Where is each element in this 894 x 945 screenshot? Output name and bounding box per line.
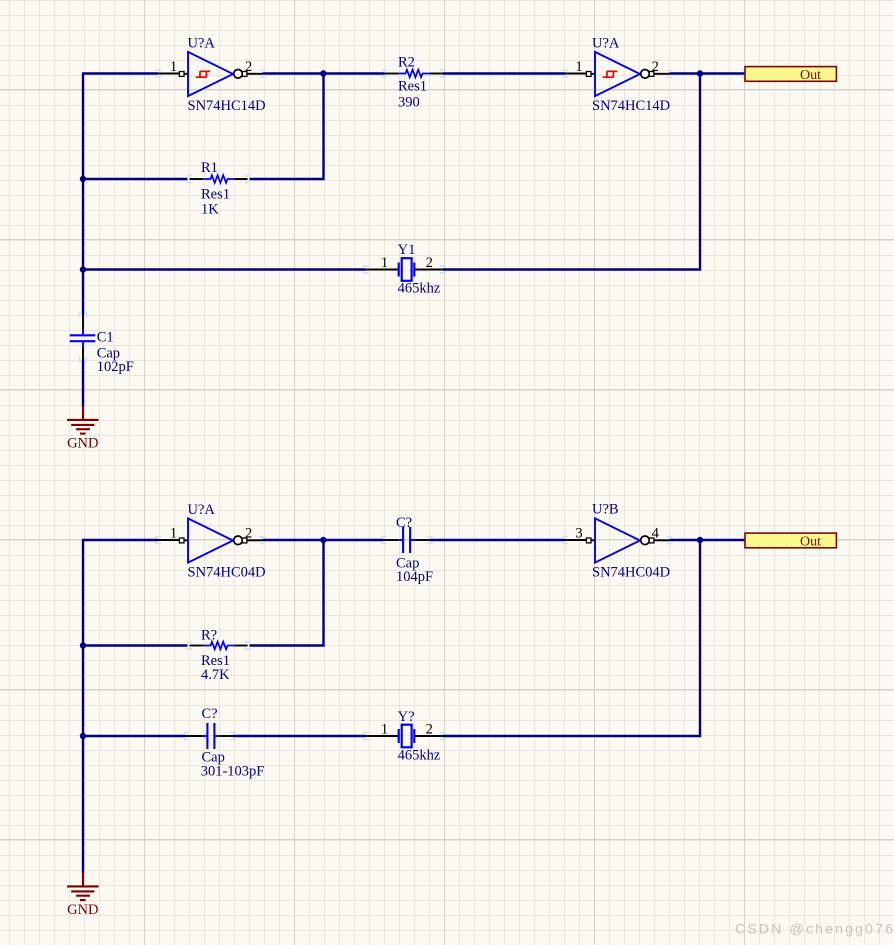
- GND stub: [82, 406, 84, 419]
- R2 zigzag body: [398, 70, 429, 78]
- GND bar 1: [67, 419, 99, 421]
- Y1 right plate: [413, 263, 415, 277]
- junction node C (output): [697, 70, 703, 76]
- wire U3A output to C2: [263, 539, 384, 541]
- svg-text:R?: R?: [201, 628, 217, 644]
- pin 1 direction square: [586, 72, 591, 77]
- pin connection marks: [80, 70, 748, 739]
- wire U2A output to port Out: [670, 72, 746, 74]
- GND stub: [82, 872, 84, 885]
- wire C2 to U4B pin3: [430, 539, 565, 541]
- junction node A-Y1: [80, 266, 86, 272]
- resistor R1: [190, 160, 248, 218]
- svg-text:Out: Out: [800, 534, 821, 549]
- pin 1 lead: [565, 73, 595, 75]
- svg-text:1: 1: [381, 722, 388, 738]
- svg-text:C?: C?: [396, 515, 412, 531]
- junction node F (output): [697, 537, 703, 543]
- svg-text:Out: Out: [800, 68, 821, 83]
- pin 3 direction square: [586, 538, 591, 543]
- C1 pin leads: [82, 315, 84, 330]
- GND bar 3: [76, 895, 90, 897]
- wire R3 left: [83, 644, 188, 646]
- junction node A-R1: [80, 176, 86, 182]
- crystal Y2 (Y?) 465khz: [366, 709, 443, 764]
- wire R1 right + vertical to node B: [250, 74, 324, 180]
- svg-text:1: 1: [170, 525, 177, 541]
- svg-text:CSDN @chengg0769: CSDN @chengg0769: [735, 921, 894, 937]
- junction node B: [320, 70, 326, 76]
- svg-text:4.7K: 4.7K: [201, 667, 230, 683]
- C2 stubs: [398, 539, 403, 541]
- C2 left plate: [402, 527, 404, 553]
- pin 3 lead: [565, 539, 595, 541]
- output bubble: [234, 70, 243, 79]
- pin 2 lead: [247, 73, 263, 75]
- R3 pin leads: [190, 645, 204, 647]
- C3 pin leads: [186, 735, 202, 737]
- svg-text:390: 390: [398, 95, 420, 111]
- C2 right plate: [409, 527, 411, 553]
- wire C1 to GND: [82, 360, 84, 407]
- svg-text:Res1: Res1: [398, 79, 427, 95]
- crystal Y1 465khz: [366, 242, 443, 297]
- svg-text:1: 1: [170, 59, 177, 75]
- svg-text:C1: C1: [97, 330, 114, 346]
- svg-text:2: 2: [426, 255, 433, 271]
- junction node D-C3: [80, 733, 86, 739]
- Y1 pin leads: [366, 269, 398, 271]
- Y2 pin leads: [366, 735, 398, 737]
- capacitor C3 301-103pF (series): [186, 706, 264, 780]
- triangle body U3A: [188, 518, 233, 562]
- R2 pin leads: [385, 73, 399, 75]
- wire R3 right + vertical to node E: [250, 540, 324, 646]
- triangle body U2A: [595, 52, 640, 96]
- svg-text:C?: C?: [202, 706, 218, 722]
- op-amp U1A inverter SN74HC14D: [158, 36, 266, 115]
- svg-text:1K: 1K: [201, 202, 219, 218]
- resistor R2: [385, 55, 443, 111]
- svg-text:3: 3: [575, 525, 582, 541]
- Y1 left plate: [398, 263, 400, 277]
- svg-text:SN74HC14D: SN74HC14D: [188, 98, 266, 114]
- svg-text:4: 4: [652, 525, 660, 541]
- GND bar 2: [71, 424, 94, 426]
- svg-text:U?B: U?B: [592, 502, 619, 518]
- pin 4 lead: [654, 539, 670, 541]
- pin 1 direction square: [179, 538, 184, 543]
- svg-text:Y?: Y?: [398, 709, 415, 725]
- GND bar 3: [76, 428, 90, 430]
- junction node D-R3: [80, 642, 86, 648]
- wire R2 to U2A pin1: [443, 72, 565, 74]
- svg-text:1: 1: [381, 255, 388, 271]
- capacitor C1 102pF: [70, 315, 134, 376]
- wire node D to C3: [83, 735, 186, 737]
- ground GND (top circuit): [67, 406, 99, 452]
- GND bar 4: [80, 433, 86, 435]
- wire Y2 to C3: [233, 735, 366, 737]
- schmitt hysteresis symbol: [603, 71, 617, 77]
- Y2 right plate: [413, 729, 415, 743]
- svg-text:Y1: Y1: [398, 242, 416, 258]
- wire top-left horizontal to U1A pin1: [82, 72, 158, 74]
- C1 top plate: [70, 334, 96, 336]
- svg-text:GND: GND: [67, 436, 98, 452]
- R1 zigzag body: [203, 175, 234, 183]
- GND bar 1: [67, 885, 99, 887]
- C1 stubs: [82, 330, 84, 335]
- pin 2 direction square: [649, 72, 654, 77]
- pin 2 direction square: [242, 72, 247, 77]
- svg-text:2: 2: [245, 525, 252, 541]
- svg-text:102pF: 102pF: [97, 359, 134, 375]
- capacitor C2 104pF (series): [384, 515, 433, 585]
- triangle body U1A: [188, 52, 233, 96]
- Y2 body rect: [402, 725, 412, 748]
- C1 bottom plate: [70, 340, 96, 342]
- port Out (top): [745, 67, 836, 83]
- wire U4B output to port Out: [670, 539, 746, 541]
- Y2 left plate: [398, 729, 400, 743]
- pin 2 direction square: [242, 538, 247, 543]
- wire U1A output to R2: [263, 72, 385, 74]
- junction node E: [320, 537, 326, 543]
- op-amp U2A inverter SN74HC14D: [565, 36, 670, 115]
- GND bar 4: [80, 899, 86, 901]
- pin 2 lead: [247, 539, 263, 541]
- C2 pin leads: [384, 539, 399, 541]
- resistor R3 (R?): [190, 628, 248, 684]
- svg-text:SN74HC04D: SN74HC04D: [188, 565, 266, 581]
- svg-text:2: 2: [245, 59, 252, 75]
- svg-text:R1: R1: [201, 160, 218, 176]
- C3 stubs: [202, 735, 207, 737]
- svg-text:2: 2: [426, 722, 433, 738]
- svg-text:465khz: 465khz: [398, 281, 441, 297]
- wire left vertical upper (node A to C1): [82, 74, 84, 315]
- pin 1 lead: [158, 539, 188, 541]
- wire R1 left: [83, 178, 188, 180]
- GND bar 2: [71, 890, 94, 892]
- schmitt hysteresis symbol: [196, 71, 210, 77]
- wire top-left horizontal to U3A pin1: [82, 539, 158, 541]
- pin 2 lead: [654, 73, 670, 75]
- R3 zigzag body: [203, 642, 234, 650]
- wire Y1 left to node: [83, 268, 366, 270]
- op-amp U3A inverter SN74HC04D: [158, 502, 266, 581]
- svg-text:U?A: U?A: [188, 36, 216, 52]
- svg-text:GND: GND: [67, 902, 98, 918]
- svg-text:465khz: 465khz: [398, 748, 441, 764]
- svg-text:104pF: 104pF: [396, 569, 433, 585]
- pin 1 direction square: [179, 72, 184, 77]
- C3 left plate: [206, 723, 208, 749]
- svg-text:SN74HC14D: SN74HC14D: [592, 98, 670, 114]
- svg-text:2: 2: [652, 59, 659, 75]
- pin 4 direction square: [649, 538, 654, 543]
- Y1 body rect: [402, 258, 412, 281]
- port Out (bottom): [745, 533, 836, 549]
- svg-text:U?A: U?A: [592, 36, 620, 52]
- wire left vertical (node D to GND): [82, 540, 84, 873]
- svg-text:SN74HC04D: SN74HC04D: [592, 565, 670, 581]
- triangle body U4B: [595, 518, 640, 562]
- svg-text:R2: R2: [398, 55, 415, 71]
- pin 1 lead: [158, 73, 188, 75]
- output bubble: [234, 536, 243, 545]
- svg-text:Res1: Res1: [201, 187, 230, 203]
- ground GND (bottom circuit): [67, 872, 99, 918]
- wire right vertical to Y2: [443, 539, 700, 736]
- R1 pin leads: [190, 178, 204, 180]
- C3 right plate: [213, 723, 215, 749]
- output bubble: [641, 536, 650, 545]
- svg-text:U?A: U?A: [188, 502, 216, 518]
- wire right vertical to Y1: [443, 72, 700, 269]
- op-amp U4B inverter SN74HC04D: [565, 502, 670, 581]
- output bubble: [641, 70, 650, 79]
- svg-text:1: 1: [575, 59, 582, 75]
- svg-text:301-103pF: 301-103pF: [201, 764, 265, 780]
